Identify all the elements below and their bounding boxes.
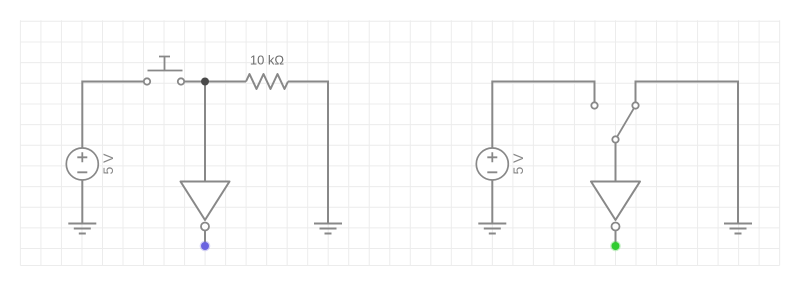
svg-text:5 V: 5 V — [100, 153, 116, 175]
svg-text:10 kΩ: 10 kΩ — [250, 53, 285, 68]
svg-text:5 V: 5 V — [510, 153, 526, 175]
